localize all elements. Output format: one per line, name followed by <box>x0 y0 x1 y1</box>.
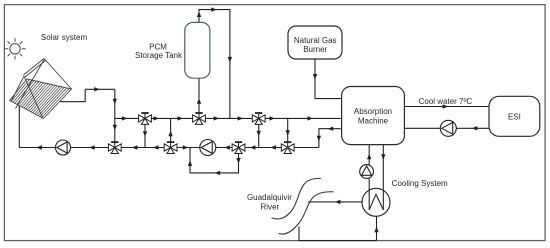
heat exchanger HX cooling system <box>362 188 390 216</box>
pump P3 chilled water <box>440 120 456 136</box>
wire: cool water supply to ESI <box>405 106 489 108</box>
svg-text:Machine: Machine <box>358 116 389 125</box>
label: PCM Storage Tank <box>135 42 183 60</box>
svg-text:Cooling System: Cooling System <box>392 179 448 188</box>
wire: heat exchanger to river <box>308 201 362 203</box>
svg-text:Absorption: Absorption <box>354 107 392 116</box>
valve V6 <box>232 142 245 153</box>
label: Guadalquivir River <box>247 193 292 211</box>
pump P2 storage loop <box>200 140 216 156</box>
wire: river intake to heat exchanger <box>299 216 377 240</box>
valve V4 <box>108 142 121 153</box>
svg-text:PCM: PCM <box>149 42 167 51</box>
wire: V1 drop to lower header <box>144 124 146 147</box>
svg-text:ESI: ESI <box>508 112 521 121</box>
svg-text:Cool water 7ºC: Cool water 7ºC <box>419 97 473 106</box>
valve V7 <box>281 142 294 153</box>
wire: lower header (row 2) <box>19 147 319 149</box>
wire: V2 riser to tank bottom <box>198 78 200 113</box>
absorption machine box <box>342 87 405 145</box>
river curve lower <box>279 192 334 234</box>
pump P1 solar loop <box>56 140 71 155</box>
wire: machine return to lower header <box>319 129 341 148</box>
PCM storage tank T1 <box>185 22 210 78</box>
svg-text:Storage Tank: Storage Tank <box>135 51 183 60</box>
wire: cooling water return riser <box>368 145 370 193</box>
wire: upper header (row 1) <box>115 117 341 119</box>
svg-text:Solar system: Solar system <box>41 33 88 42</box>
wire: V3 drop to lower header <box>258 124 260 147</box>
natural gas burner box <box>288 26 342 59</box>
valve V2 <box>193 113 206 124</box>
wire: cooling water supply drop <box>382 145 384 193</box>
wire: valve V5 riser to upper header <box>170 118 172 142</box>
pump P4 cooling <box>360 165 374 179</box>
valve V5 <box>164 142 177 153</box>
wire: collector outlet to main junction <box>60 89 115 142</box>
svg-text:Burner: Burner <box>303 45 327 54</box>
river curve upper <box>272 178 321 219</box>
sun icon <box>4 38 25 59</box>
valve V1 <box>139 113 152 124</box>
wire: bypass loop under pump P2 <box>190 148 239 173</box>
solar collector frame <box>11 59 72 119</box>
wire: junction drop to valve V7 <box>287 118 289 142</box>
wire: ESI return <box>405 127 489 129</box>
ESI box <box>489 96 540 136</box>
solar collector panel <box>10 79 72 119</box>
valve V3 <box>252 113 265 124</box>
wire: burner to absorption machine <box>315 59 341 99</box>
wire: return riser to collector <box>18 106 20 148</box>
svg-text:River: River <box>260 202 279 211</box>
svg-text:Guadalquivir: Guadalquivir <box>247 193 292 202</box>
wire: tank top return <box>199 10 230 119</box>
svg-text:Natural Gas: Natural Gas <box>294 36 337 45</box>
